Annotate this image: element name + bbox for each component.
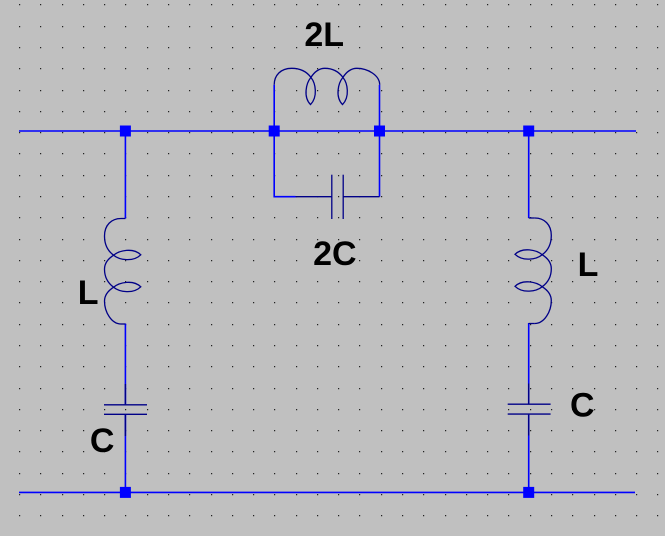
svg-text:L: L [78, 274, 99, 312]
capacitor C left [104, 384, 147, 436]
svg-text:L: L [578, 246, 599, 284]
svg-text:C: C [570, 387, 595, 425]
junction node bottom-right [523, 487, 534, 498]
capacitor C right [508, 384, 551, 436]
svg-text:2C: 2C [313, 235, 356, 273]
wire left branch lower [124, 415, 126, 493]
wire right branch mid [528, 323, 530, 404]
junction node bottom-left [120, 487, 131, 498]
svg-text:2L: 2L [304, 16, 344, 54]
wire top rail [19, 130, 636, 132]
wire 2L right lead [379, 85, 381, 131]
wire right branch lower [528, 415, 530, 493]
junction node top mid-left [269, 126, 280, 137]
wire right branch upper [528, 131, 530, 218]
wire middle right drop [379, 131, 381, 197]
wire bottom rail [19, 491, 635, 493]
junction node top-left [120, 126, 131, 137]
wire 2L left lead [273, 85, 275, 131]
wire middle left drop [274, 131, 295, 197]
junction node top mid-right [374, 126, 385, 137]
inductor 2L [274, 68, 380, 104]
inductor L left [105, 219, 141, 325]
capacitor 2C [296, 175, 380, 219]
wire left branch upper [124, 131, 126, 219]
junction node top-right [523, 126, 534, 137]
wire left branch mid [124, 324, 126, 405]
inductor L right [515, 218, 551, 324]
svg-text:C: C [90, 422, 115, 460]
